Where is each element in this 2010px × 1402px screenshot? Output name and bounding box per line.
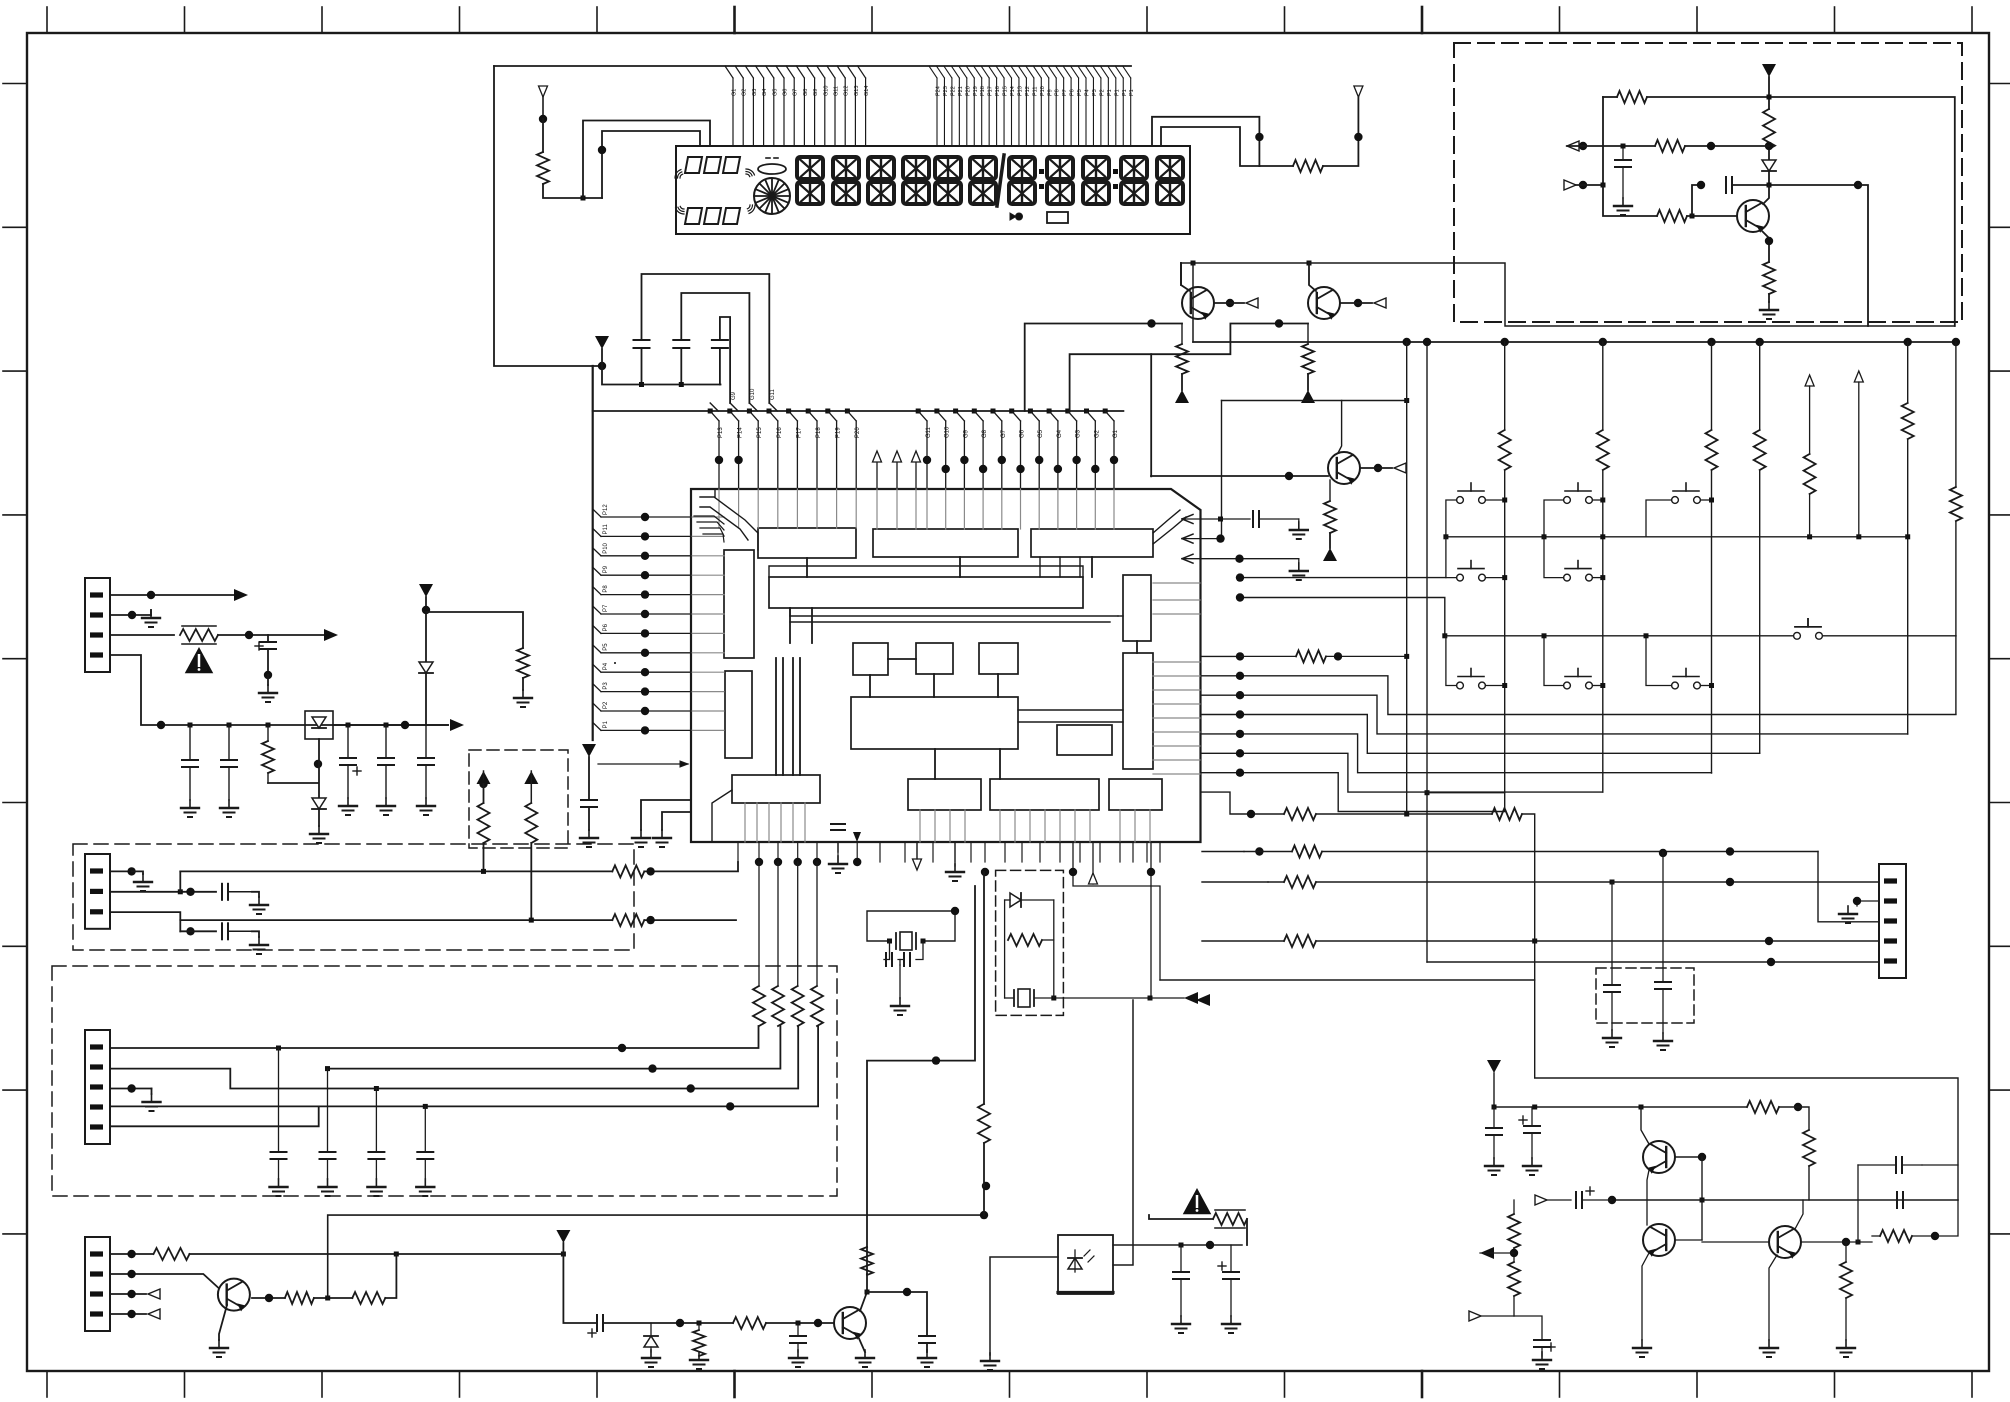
- svg-text:P14: P14: [1010, 86, 1016, 96]
- svg-text:P18: P18: [816, 427, 822, 438]
- node dot: [1931, 1232, 1939, 1240]
- capacitor hz: [1726, 177, 1732, 193]
- wire branch: [426, 612, 523, 648]
- node dot: [1206, 1241, 1214, 1249]
- wire: [530, 843, 532, 920]
- svg-text:P12: P12: [1025, 86, 1031, 96]
- capacitor: [271, 1048, 287, 1179]
- wire b: [1692, 185, 1701, 216]
- wire: [522, 678, 524, 690]
- capacitor: [790, 1323, 806, 1352]
- node dot: [245, 631, 253, 639]
- key switch: [1457, 483, 1486, 503]
- wire: [1181, 263, 1190, 291]
- wire 941: [1202, 940, 1284, 942]
- wire riser: [1149, 1215, 1213, 1219]
- junction: [1767, 95, 1772, 100]
- node dot: [1235, 555, 1243, 563]
- ground: [1603, 1030, 1621, 1047]
- capacitor: [417, 1106, 433, 1179]
- junction: [1532, 939, 1537, 944]
- wire p1: [110, 1253, 153, 1255]
- wire: [1316, 813, 1492, 815]
- junction: [178, 889, 183, 894]
- wire box left: [990, 1257, 1058, 1355]
- node dot: [1707, 338, 1715, 346]
- resistor: [1655, 140, 1685, 152]
- resistor: [1492, 808, 1522, 820]
- open arrow: [1394, 463, 1406, 473]
- svg-text:P6: P6: [1070, 89, 1076, 96]
- ground: [1633, 1340, 1651, 1357]
- wire: [1244, 851, 1292, 853]
- svg-text:P5: P5: [603, 643, 609, 651]
- svg-text:P12: P12: [603, 504, 609, 515]
- power flag: [524, 771, 538, 803]
- node dot: [157, 721, 165, 729]
- junction: [1600, 534, 1605, 539]
- wire e5c6: [1647, 1170, 1649, 1225]
- LED sensor box: [1058, 1235, 1113, 1294]
- fusible resistor: [180, 626, 218, 644]
- key switch redraw: [1794, 619, 1823, 639]
- ground: [1523, 1158, 1541, 1175]
- junction: [1709, 498, 1714, 503]
- IC left pins P12-P1: [593, 504, 691, 735]
- junction: [1442, 633, 1447, 638]
- node dot: [1765, 142, 1773, 150]
- LCD wheel trapezoid segments: [675, 157, 755, 224]
- node dot: [726, 1102, 734, 1110]
- wire coll: [1763, 185, 1769, 204]
- key switch: [1794, 619, 1823, 639]
- ground: [319, 1179, 337, 1196]
- LCD slash segment: [997, 155, 1004, 206]
- resistor col2: [1595, 430, 1611, 470]
- wire: [1307, 374, 1309, 390]
- junction: [865, 1290, 870, 1295]
- net VLCD open arrow: [539, 86, 548, 119]
- IC right pin wire: [1202, 695, 1908, 734]
- IC bottom pin stubs: [738, 842, 1160, 866]
- junction: [1600, 683, 1605, 688]
- dashed box caps right: [1596, 968, 1694, 1023]
- power flag: [419, 584, 433, 597]
- wire: [543, 184, 602, 198]
- wire right: [1858, 185, 1868, 326]
- junction: [1600, 575, 1605, 580]
- wire p2b: [328, 1026, 781, 1069]
- wire: [1309, 263, 1316, 291]
- resistor Q3e: [1324, 480, 1336, 533]
- wire 851: [1202, 851, 1244, 853]
- wire: [1685, 145, 1769, 147]
- node dot: [1236, 691, 1244, 699]
- svg-text:P23: P23: [943, 86, 949, 96]
- wire: [1329, 533, 1331, 548]
- capacitor C+: [1534, 1340, 1555, 1351]
- node dot: [1285, 472, 1293, 480]
- wire p4: [110, 1313, 146, 1315]
- wire enclosure left: [494, 66, 602, 366]
- wire: [314, 1297, 352, 1299]
- junction: [529, 918, 534, 923]
- arrow into IC 2: [1182, 534, 1221, 543]
- key switch: [1564, 561, 1593, 581]
- wire xr: [1053, 900, 1055, 998]
- junction: [887, 939, 892, 944]
- node dot: [539, 115, 547, 123]
- node dot: [1765, 237, 1773, 245]
- LCD 14-segment digits: [797, 157, 1183, 204]
- svg-text:G2: G2: [742, 89, 748, 96]
- junction: [384, 723, 389, 728]
- label G9: [731, 391, 737, 400]
- open arrow dn: [913, 842, 922, 870]
- node dot: [1423, 338, 1431, 346]
- arrow: [450, 719, 464, 731]
- capacitor: [831, 824, 845, 852]
- open arrow up: [1089, 873, 1098, 884]
- node dot: [1904, 338, 1912, 346]
- node dot: [127, 1290, 135, 1298]
- transistor Q4: [1737, 200, 1769, 233]
- wire 882c: [1612, 881, 1879, 883]
- resistor: [1747, 1101, 1779, 1113]
- ground: [220, 800, 238, 817]
- capacitor: [1615, 146, 1631, 198]
- wire: [1935, 1200, 1958, 1236]
- capacitor C-a: [634, 340, 650, 348]
- warning triangle: [185, 647, 214, 673]
- key switch: [1672, 483, 1701, 503]
- wire pin1: [110, 870, 132, 872]
- IC top pins G11-G1: [916, 409, 1119, 490]
- connector CN2: [85, 854, 110, 929]
- fusible resistor: [1213, 1210, 1247, 1228]
- svg-text:P16: P16: [995, 86, 1001, 96]
- IC top arrows: [873, 451, 921, 489]
- wire: [1340, 302, 1372, 304]
- wire: [385, 1254, 396, 1298]
- wire icb3: [1150, 842, 1152, 998]
- ground: [416, 1179, 434, 1196]
- wire q3coll right: [1342, 400, 1407, 402]
- wire: [1316, 940, 1879, 942]
- wire: [1113, 1244, 1242, 1246]
- node dot: [1226, 299, 1234, 307]
- junction: [796, 1321, 801, 1326]
- wire: [1360, 467, 1392, 469]
- zener box regulator: [305, 711, 333, 739]
- wire q3base drop: [1150, 354, 1152, 476]
- diode: [1005, 893, 1054, 907]
- wire icb1: [1073, 842, 1160, 980]
- junction: [1443, 534, 1448, 539]
- arrow: [324, 629, 338, 641]
- wire: [983, 1143, 985, 1186]
- wire p1: [110, 1026, 759, 1048]
- node dot: [1842, 1238, 1850, 1246]
- ground: [270, 1179, 288, 1196]
- wire: [1323, 97, 1358, 166]
- wire: [180, 930, 216, 932]
- wire: [867, 1292, 927, 1336]
- wire: [1592, 685, 1602, 687]
- warning triangle: [1183, 1188, 1212, 1214]
- svg-text:P2: P2: [1099, 89, 1105, 96]
- node dot: [186, 888, 194, 896]
- svg-text:P9: P9: [603, 565, 609, 573]
- junction: [1532, 1105, 1537, 1110]
- junction: [921, 939, 926, 944]
- arrow into IC 3: [1182, 554, 1299, 563]
- svg-text:P10: P10: [603, 542, 609, 553]
- wire: [1779, 1106, 1798, 1108]
- wire sw left: [1544, 500, 1564, 537]
- node dot: [264, 671, 272, 679]
- matrix column: [1759, 342, 1761, 753]
- wire: [1493, 1073, 1495, 1107]
- node dot: [1334, 652, 1342, 660]
- IC internal wiring: [615, 489, 1200, 842]
- wire sw right: [1592, 499, 1602, 501]
- wire: [1798, 1107, 1809, 1130]
- wire top: [1603, 96, 1617, 98]
- LCD segment bus P group: [929, 66, 1135, 146]
- junction: [346, 723, 351, 728]
- junction: [394, 1252, 399, 1257]
- node dot: [1608, 1196, 1616, 1204]
- transistor Q5: [1643, 1141, 1675, 1174]
- node dot: [265, 1294, 273, 1302]
- open arrow up: [1805, 375, 1814, 386]
- open arrow in: [1535, 1195, 1571, 1205]
- diode: [644, 1323, 658, 1352]
- junction: [1404, 398, 1409, 403]
- svg-text:P11: P11: [1032, 87, 1038, 96]
- resistor col3: [1704, 430, 1720, 470]
- ground: [1760, 302, 1778, 319]
- node dot: [1726, 878, 1734, 886]
- transistor Q2: [1308, 287, 1340, 320]
- capacitor: [581, 800, 597, 807]
- wire: [542, 119, 544, 152]
- resistor: [352, 1292, 385, 1304]
- junction: [639, 382, 644, 387]
- junction: [1148, 996, 1153, 1001]
- wire riser: [328, 1215, 984, 1298]
- wire: [1592, 577, 1602, 579]
- capacitor top: [1858, 1157, 1922, 1173]
- ground: [142, 610, 160, 627]
- junction: [1610, 880, 1615, 885]
- wire pin3: [110, 634, 174, 636]
- connector CN3: [85, 1030, 110, 1144]
- LCD segment bus G1-G14: [725, 66, 870, 146]
- capacitor: [1173, 1245, 1189, 1316]
- node dot: [951, 907, 959, 915]
- svg-text:P8: P8: [603, 585, 609, 593]
- node dot: [1767, 958, 1775, 966]
- transistor Q6: [1643, 1224, 1675, 1257]
- wire emitter: [857, 1334, 865, 1352]
- capacitor C+: [1576, 1187, 1594, 1208]
- capacitor: [1604, 985, 1620, 992]
- svg-text:P17: P17: [796, 427, 802, 438]
- net arrow: [1354, 86, 1363, 97]
- resistor col1: [1497, 430, 1513, 470]
- matrix column: [1504, 342, 1506, 811]
- ground: [181, 800, 199, 817]
- wire: [1259, 165, 1293, 167]
- ground: [1839, 906, 1857, 923]
- wire: [1240, 655, 1296, 657]
- junction: [266, 723, 271, 728]
- ground: [642, 1350, 660, 1367]
- wire: [1322, 851, 1818, 853]
- svg-text:P15: P15: [1003, 86, 1009, 96]
- node dot: [1794, 1103, 1802, 1111]
- power flag: [582, 744, 596, 757]
- svg-text:G3: G3: [752, 89, 758, 96]
- dashed box remote in: [73, 844, 634, 950]
- dashed box xtal: [996, 870, 1064, 1015]
- svg-text:P1: P1: [603, 720, 609, 728]
- wire: [1700, 685, 1711, 687]
- wire branch: [1427, 792, 1505, 794]
- wire: [1858, 382, 1860, 537]
- wire: [766, 1322, 834, 1324]
- resistor: [1284, 876, 1316, 888]
- wire xtal loop: [867, 911, 955, 941]
- IC right pin wire: [1202, 753, 1603, 792]
- wire to conn: [1818, 852, 1879, 922]
- wire 814: [1202, 792, 1284, 814]
- LCD rectangle icon: [1047, 212, 1068, 223]
- svg-text:G5: G5: [1038, 429, 1044, 438]
- junction: [1807, 534, 1812, 539]
- node dot: [1255, 847, 1263, 855]
- capacitor: [886, 953, 892, 966]
- svg-text:G13: G13: [854, 86, 860, 96]
- wire: [867, 886, 975, 1247]
- junction: [1709, 683, 1714, 688]
- node dot: [186, 927, 194, 935]
- capacitor: [320, 1069, 336, 1179]
- junction: [1425, 790, 1430, 795]
- svg-text:P3: P3: [603, 682, 609, 690]
- IC internal blocks: [724, 528, 1162, 810]
- node dot: [1236, 672, 1244, 680]
- svg-text:G4: G4: [762, 89, 768, 96]
- node dot: [1374, 464, 1382, 472]
- wire: [267, 649, 269, 675]
- svg-text:P4: P4: [603, 662, 609, 670]
- wire coll chain: [252, 1297, 285, 1299]
- junction: [423, 1104, 428, 1109]
- node dot: [981, 868, 989, 876]
- wire long1: [180, 870, 612, 872]
- wire: [588, 807, 590, 830]
- wire inner hook: [602, 131, 700, 198]
- wire: [1150, 997, 1184, 999]
- wire: [151, 1089, 153, 1095]
- wire: [1268, 881, 1284, 883]
- capacitor: [1655, 982, 1671, 989]
- wire: [1485, 577, 1504, 579]
- capacitor: [222, 923, 252, 939]
- node dot: [1236, 593, 1244, 601]
- svg-text:P5: P5: [1077, 89, 1083, 96]
- svg-text:P10: P10: [1040, 86, 1046, 96]
- junction: [1502, 683, 1507, 688]
- node dot: [1697, 181, 1705, 189]
- wire: [1514, 1316, 1542, 1340]
- svg-text:G11: G11: [926, 426, 932, 438]
- wire q3coll: [1222, 401, 1342, 454]
- ground: [377, 798, 395, 815]
- node dot: [1579, 181, 1587, 189]
- matrix column: [1955, 342, 1957, 714]
- wire capd2: [1662, 853, 1664, 982]
- connector CN4: [85, 1237, 110, 1331]
- wire sw right: [1485, 499, 1504, 501]
- wire capl: [884, 941, 890, 960]
- svg-text:G10: G10: [823, 86, 829, 96]
- resistor col4: [1752, 430, 1768, 470]
- node dot: [1659, 849, 1667, 857]
- node dot: [1853, 897, 1861, 905]
- resistor R-top: [1293, 160, 1323, 172]
- wire: [1113, 1000, 1133, 1265]
- ground: [259, 685, 277, 702]
- wire outer hook: [583, 121, 710, 199]
- wire hook b top: [681, 293, 749, 403]
- resistor: [262, 725, 274, 783]
- node dot: [1236, 769, 1244, 777]
- node dot: [1147, 319, 1155, 327]
- node dot: [1354, 299, 1362, 307]
- crystal X2: [1014, 989, 1034, 1007]
- resistor: [1617, 91, 1647, 103]
- ground: [1614, 198, 1632, 215]
- node dot: [401, 721, 409, 729]
- resistor: [1005, 900, 1054, 998]
- wire: [641, 800, 691, 830]
- wire: [1544, 636, 1564, 686]
- resistor: [285, 1292, 314, 1304]
- wire mid dn2: [899, 960, 901, 966]
- svg-text:G10: G10: [750, 388, 756, 400]
- wire sw right: [1700, 499, 1711, 501]
- wire collector: [860, 1274, 867, 1311]
- svg-text:G1: G1: [1113, 429, 1119, 438]
- wire riser: [179, 871, 181, 891]
- svg-text:P4: P4: [1085, 89, 1091, 96]
- svg-text:P20: P20: [965, 86, 971, 96]
- open arrow: [1246, 298, 1258, 308]
- svg-text:P1: P1: [1107, 89, 1113, 96]
- wire y263 to right: [1309, 263, 1955, 326]
- node dot: [646, 916, 654, 924]
- open arrow: [1469, 1311, 1514, 1321]
- capacitor C+: [588, 1315, 603, 1337]
- wire cap right: [1922, 1164, 1958, 1166]
- node dot: [479, 780, 487, 788]
- resistor inline: [1296, 650, 1326, 662]
- node dot: [1069, 868, 1077, 876]
